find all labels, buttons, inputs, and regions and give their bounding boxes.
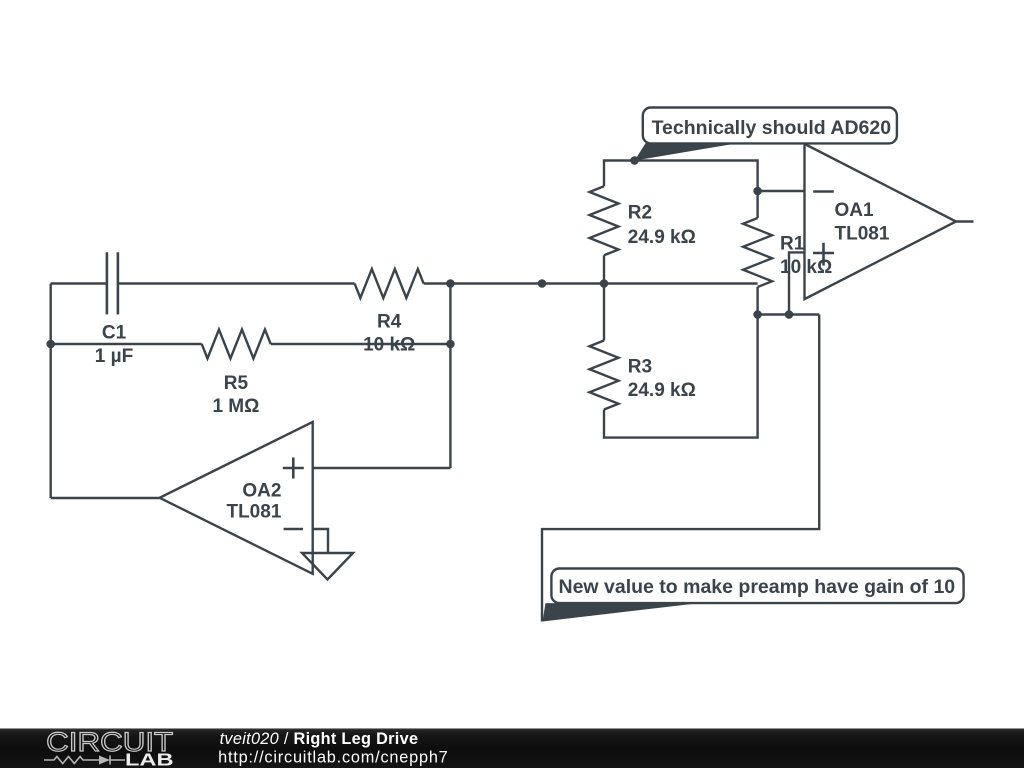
svg-text:R4: R4 <box>377 312 402 333</box>
wire lower left <box>51 343 202 345</box>
wire R3 top lead <box>603 284 605 341</box>
wire OA2 output <box>51 497 160 499</box>
svg-text:10 kΩ: 10 kΩ <box>780 257 832 278</box>
svg-text:1 µF: 1 µF <box>95 346 133 367</box>
wire R4 to node <box>424 282 451 284</box>
wire R1 bottom lead <box>756 287 758 315</box>
svg-text:24.9 kΩ: 24.9 kΩ <box>628 380 696 401</box>
svg-text:TL081: TL081 <box>835 224 890 245</box>
wire R3 bottom loop <box>604 315 758 438</box>
op-amp OA2 minus sign <box>284 528 303 531</box>
wire main horizontal <box>450 282 757 284</box>
resistor R3 <box>590 341 619 410</box>
svg-text:1 MΩ: 1 MΩ <box>212 396 259 417</box>
wire R2 branch top <box>604 161 758 192</box>
node dot OA1 minus <box>753 187 762 196</box>
node dot R1 bottom <box>753 310 762 319</box>
wire top middle segment <box>119 282 355 284</box>
resistor R5 <box>202 330 271 359</box>
svg-text:24.9 kΩ: 24.9 kΩ <box>628 227 696 248</box>
op-amp OA1 minus sign <box>813 190 834 193</box>
svg-text:R2: R2 <box>628 203 652 224</box>
op-amp OA1 <box>805 144 957 299</box>
wire OA1 output <box>956 220 974 222</box>
annotation tail bottom callout <box>543 603 696 621</box>
footer bar <box>0 728 1024 768</box>
svg-text:http://circuitlab.com/cnepph7: http://circuitlab.com/cnepph7 <box>218 748 448 766</box>
svg-text:New value to make preamp have: New value to make preamp have gain of 10 <box>559 576 956 598</box>
svg-text:C1: C1 <box>102 323 127 344</box>
resistor R4 <box>355 269 424 298</box>
op-amp OA2 plus sign <box>283 458 304 479</box>
resistor R2 <box>590 186 619 255</box>
svg-text:R5: R5 <box>224 373 249 394</box>
logo diode triangle <box>99 756 110 765</box>
svg-text:LAB: LAB <box>125 749 174 768</box>
wire R5 to node <box>271 343 451 345</box>
svg-text:Technically should AD620: Technically should AD620 <box>652 117 892 139</box>
wire R2 bottom lead <box>603 255 605 283</box>
wire OA2 plus input <box>313 467 451 469</box>
wire R1 top lead <box>756 191 758 218</box>
svg-text:R3: R3 <box>628 357 652 378</box>
op-amp OA1 plus sign <box>813 243 834 266</box>
node dot R4 out <box>446 279 455 288</box>
svg-text:OA2: OA2 <box>242 480 281 501</box>
logo squiggle resistor diode <box>44 756 125 765</box>
resistor R1 <box>743 218 772 287</box>
node dot R2 R3 <box>600 279 609 288</box>
node dot R5 out <box>446 340 455 349</box>
capacitor C1 <box>107 252 118 314</box>
wire OA1 minus input <box>758 190 805 192</box>
node dot callout anchor <box>630 156 639 165</box>
wire bottom node run <box>758 313 820 315</box>
wire OA2 minus to ground <box>313 529 328 553</box>
node dot left <box>46 340 55 349</box>
ground symbol <box>302 553 353 580</box>
svg-text:OA1: OA1 <box>835 200 875 221</box>
svg-text:tveit020 / Right Leg Drive: tveit020 / Right Leg Drive <box>220 730 419 748</box>
svg-text:TL081: TL081 <box>226 502 281 523</box>
wire top left segment <box>51 282 106 284</box>
node dot mid wire <box>538 279 547 288</box>
node dot plus feedback <box>785 310 794 319</box>
svg-text:10 kΩ: 10 kΩ <box>363 335 415 356</box>
wire long feedback loop <box>542 315 819 622</box>
wire left vertical <box>50 284 52 499</box>
annotation tail top callout <box>635 143 737 161</box>
annotation box bottom callout <box>551 569 963 604</box>
op-amp OA2 <box>160 422 313 574</box>
svg-text:R1: R1 <box>780 233 805 254</box>
wire right vertical feedback <box>449 284 451 469</box>
wire OA1 plus input <box>789 252 805 314</box>
annotation box top callout <box>643 108 897 144</box>
